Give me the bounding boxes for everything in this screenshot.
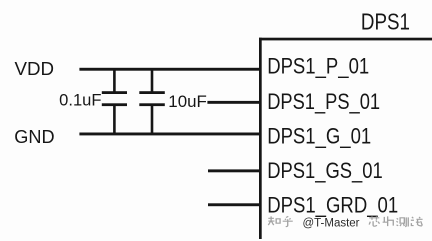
svg-text:DPS1: DPS1 [361,8,410,34]
pin label DPS1_G_01 [267,123,371,148]
net label VDD [15,59,55,80]
capacitor C1 0.1uF [102,69,127,134]
pin label DPS1_P_01 [267,53,369,78]
capacitor C2 10uF [139,69,165,134]
svg-text:@T-Master: @T-Master [303,218,360,230]
svg-text:DPS1_GS_01: DPS1_GS_01 [267,158,383,183]
net label GND [14,126,54,147]
svg-text:10uF: 10uF [168,93,207,111]
pin label DPS1_PS_01 [267,89,380,114]
watermark 知乎 @T-Master芯片测试 [268,216,422,226]
svg-text:DPS1_GRD_01: DPS1_GRD_01 [267,192,398,217]
wire stub to pin DPS1_PS_01 [207,101,259,104]
wire stub to pin DPS1_GS_01 [208,169,260,172]
value label 10uF [168,93,207,111]
svg-text:DPS1_PS_01: DPS1_PS_01 [267,89,380,114]
wire VDD rail to pin DPS1_P_01 [79,68,259,71]
pin label DPS1_GRD_01 [267,192,398,217]
pin label DPS1_GS_01 [267,158,383,183]
value label 0.1uF [59,92,101,110]
watermark latin text @T-Master [303,218,360,230]
svg-text:GND: GND [14,126,54,147]
IC DPS1 box left edge [259,38,262,239]
IC DPS1 box top edge [259,38,432,41]
svg-text:DPS1_P_01: DPS1_P_01 [267,53,369,78]
svg-text:DPS1_G_01: DPS1_G_01 [267,123,371,148]
wire GND rail to pin DPS1_G_01 [79,133,259,136]
refdes label DPS1 [361,8,410,34]
svg-text:0.1uF: 0.1uF [59,92,101,110]
wire stub to pin DPS1_GRD_01 [208,203,260,206]
svg-text:VDD: VDD [15,59,55,80]
